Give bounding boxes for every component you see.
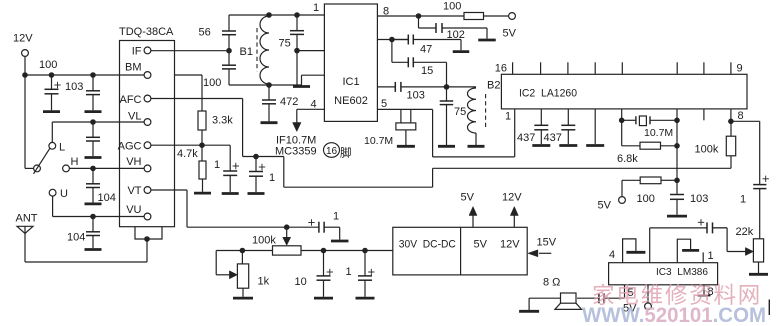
svg-text:104: 104 (98, 192, 116, 204)
svg-text:L: L (59, 142, 65, 154)
svg-text:IC2 LA1260: IC2 LA1260 (519, 88, 577, 100)
svg-text:VL: VL (128, 111, 141, 123)
svg-text:8 Ω: 8 Ω (543, 277, 560, 289)
svg-text:437: 437 (517, 132, 535, 144)
svg-text:MC3359: MC3359 (275, 146, 317, 158)
svg-text:6.8k: 6.8k (617, 153, 638, 165)
svg-text:1: 1 (740, 194, 746, 206)
svg-text:10.7M: 10.7M (644, 127, 673, 139)
svg-text:1k: 1k (258, 276, 270, 288)
svg-text:12V: 12V (500, 239, 520, 251)
svg-text:103: 103 (407, 90, 425, 102)
svg-text:TDQ-38CA: TDQ-38CA (119, 26, 174, 38)
svg-text:VH: VH (126, 156, 141, 168)
svg-text:3.3k: 3.3k (212, 115, 233, 127)
svg-text:IC3 LM386: IC3 LM386 (656, 266, 708, 278)
svg-text:BM: BM (125, 62, 142, 74)
svg-text:100k: 100k (695, 144, 719, 156)
svg-text:ANT: ANT (16, 213, 38, 225)
svg-text:75: 75 (279, 38, 291, 50)
svg-text:75: 75 (454, 106, 466, 118)
svg-text:AFC: AFC (120, 94, 142, 106)
svg-text:100: 100 (443, 1, 461, 13)
svg-text:B1: B1 (240, 46, 253, 58)
svg-text:47: 47 (420, 44, 432, 56)
svg-text:5V: 5V (503, 28, 517, 40)
svg-text:10: 10 (295, 276, 307, 288)
svg-text:22k: 22k (736, 226, 754, 238)
svg-text:100: 100 (637, 193, 655, 205)
svg-text:10.7M: 10.7M (364, 135, 393, 147)
svg-text:1: 1 (346, 266, 352, 278)
svg-text:12V: 12V (13, 33, 33, 45)
svg-text:8: 8 (738, 110, 744, 122)
svg-text:脚: 脚 (340, 146, 352, 160)
svg-text:4: 4 (311, 99, 317, 111)
svg-text:IF: IF (132, 46, 142, 58)
svg-text:AGC: AGC (118, 141, 142, 153)
svg-text:WWW.520101.COM: WWW.520101.COM (582, 304, 766, 326)
svg-text:56: 56 (199, 27, 211, 39)
svg-text:472: 472 (280, 96, 298, 108)
svg-text:1: 1 (505, 111, 511, 123)
svg-text:16: 16 (495, 63, 507, 75)
svg-text:1: 1 (214, 159, 220, 171)
svg-text:IC1: IC1 (342, 76, 359, 88)
svg-text:1: 1 (708, 250, 714, 262)
svg-text:5V: 5V (474, 239, 488, 251)
svg-text:16: 16 (326, 146, 338, 157)
svg-text:VT: VT (127, 185, 141, 197)
svg-text:5: 5 (381, 98, 387, 110)
svg-text:H: H (71, 156, 79, 168)
svg-text:15V: 15V (537, 237, 557, 249)
svg-text:NE602: NE602 (334, 95, 368, 107)
svg-text:15: 15 (421, 65, 433, 77)
svg-text:5V: 5V (461, 192, 475, 204)
svg-text:103: 103 (65, 81, 83, 93)
svg-text:1: 1 (269, 172, 275, 184)
svg-text:100k: 100k (252, 235, 276, 247)
svg-text:100: 100 (39, 59, 57, 71)
svg-text:12V: 12V (502, 192, 522, 204)
svg-text:5V: 5V (598, 200, 612, 212)
svg-text:1: 1 (313, 2, 319, 14)
svg-text:9: 9 (737, 63, 743, 75)
svg-text:4: 4 (609, 249, 615, 261)
svg-text:103: 103 (690, 193, 708, 205)
svg-text:U: U (60, 188, 68, 200)
svg-text:VU: VU (126, 204, 141, 216)
svg-text:437: 437 (544, 132, 562, 144)
svg-text:1: 1 (333, 211, 339, 223)
svg-text:B2: B2 (487, 80, 500, 92)
svg-text:104: 104 (67, 232, 85, 244)
svg-text:100: 100 (203, 77, 221, 89)
svg-text:4.7k: 4.7k (177, 148, 198, 160)
svg-text:30V DC-DC: 30V DC-DC (399, 238, 456, 250)
